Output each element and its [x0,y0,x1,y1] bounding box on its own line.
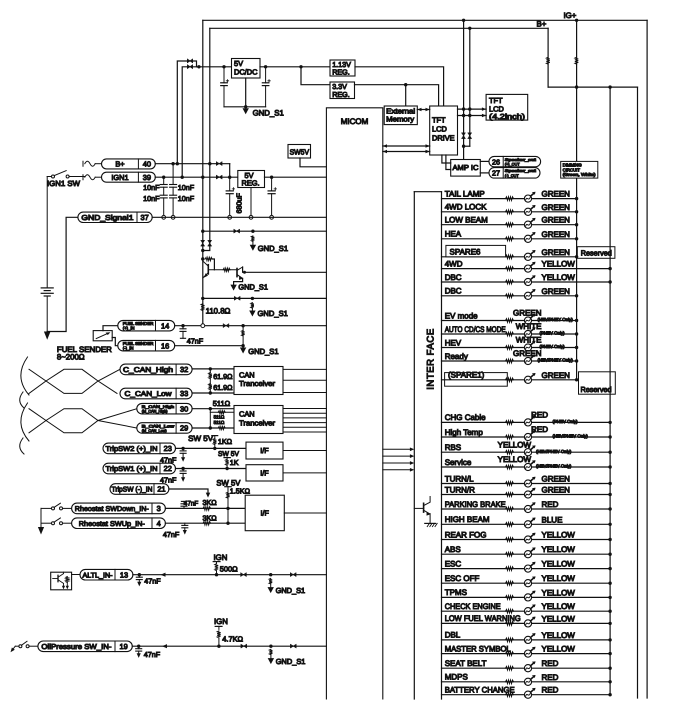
capacitor 10nF pair column 2 [172,164,174,185]
svg-text:B_CAN_High: B_CAN_High [142,405,174,409]
wire: battery to switch [47,176,51,178]
svg-text:TURN/L: TURN/L [445,474,474,483]
capacitor C-in at DC/DC [222,65,225,68]
svg-text:GND_S1: GND_S1 [258,244,288,253]
node TURN/R bus [608,493,611,496]
resistor 110.8 ohm [201,304,204,311]
wire: Q1 base to Q2 [208,269,237,271]
pin 14 FUEL SENDER (+)_IN [118,320,175,331]
resistor 4WD LOCK [506,210,514,214]
bus: CAN2 to MICOM [283,408,326,410]
svg-text:10nF: 10nF [178,183,195,192]
node row A pulldown [251,230,254,233]
svg-text:680uF: 680uF [235,193,244,214]
resistor bead between 14/16 [242,326,244,331]
resistor 1K ohm pullup [214,436,216,439]
node REAR FOG bus [608,538,611,541]
lamp EV mode [524,314,535,324]
resistor 500 ohm [216,562,218,564]
node: bus1 on rail [575,85,578,88]
ic I/F 1 [246,442,283,459]
svg-text:61.9Ω: 61.9Ω [213,372,233,381]
wire: AMP out 26 [480,160,489,162]
svg-text:14: 14 [161,321,169,330]
svg-text:LCD: LCD [432,124,447,133]
node cap 47nF fuel [181,324,184,327]
indicator row SEAT BELT [442,667,611,669]
svg-text:YELLOW: YELLOW [542,602,576,611]
coil on B+ pin [82,161,84,166]
lamp SPARE6 [524,250,535,260]
svg-text:4WD LOCK: 4WD LOCK [445,203,487,212]
svg-text:DC/DC: DC/DC [234,68,258,77]
svg-text:RED: RED [531,411,548,420]
svg-text:(HEV/PHEV Only): (HEV/PHEV Only) [553,434,589,439]
svg-text:YELLOW: YELLOW [542,645,576,654]
wire: row 21 down arrow [169,489,208,494]
svg-text:TripSW2 (+)_IN: TripSW2 (+)_IN [106,445,158,453]
svg-text:(-)_OUT: (-)_OUT [505,174,520,178]
svg-text:GND_S1: GND_S1 [276,657,306,666]
svg-text:10nF: 10nF [143,183,160,192]
resistor Ready [506,359,514,363]
svg-text:I/F: I/F [260,468,269,477]
wire: row B to MICOM [201,297,204,300]
lamp REAR FOG [524,533,535,543]
svg-text:Reserved: Reserved [581,248,612,257]
ferrite bead row13 b [290,573,296,577]
svg-text:Rheostat SWDown_IN-: Rheostat SWDown_IN- [75,505,150,513]
direction arrow row13 [161,573,166,577]
wire: 3.3V drop to External Memory [405,85,407,106]
resistor SPARE6 [506,255,514,259]
node cap row13 [138,573,141,576]
svg-text:23: 23 [164,444,172,453]
svg-text:B_CAN_Low: B_CAN_Low [142,424,175,428]
node TAIL LAMP bus [575,197,578,200]
node DBC bus [575,294,578,297]
wire: 1.13V output to TFT LCD DRIVE [355,67,444,106]
svg-text:PARKING BRAKE: PARKING BRAKE [445,500,506,509]
svg-text:GREEN: GREEN [542,475,571,484]
wire: branch down to 3.3V REG [301,67,330,85]
wire: DC/DC gnd pin [245,78,247,107]
svg-text:GREEN: GREEN [542,486,571,495]
capacitor 47nF row13 [138,575,140,578]
svg-text:HEA: HEA [445,230,462,239]
svg-text:30: 30 [180,404,188,413]
svg-text:I/F: I/F [261,509,270,518]
indicator row RBS [442,451,611,453]
wire: GND_Signal1 to chassis [47,217,78,331]
pin 32 C_CAN_High [120,364,192,375]
node Ready bus [575,359,578,362]
box SPARE6 [446,245,506,256]
lamp Ready [524,354,535,364]
wire: DRIVE to AMP 1 [442,155,451,163]
svg-text:Memory: Memory [386,115,414,124]
resistor pulldown row19 [269,649,272,655]
svg-text:47nF: 47nF [160,476,177,485]
oil pressure switch [12,646,15,650]
ground hatch lamp driver [425,522,436,524]
node SPARE6 bus [575,255,578,258]
capacitor 47nF fuel [182,326,184,329]
resistor High Temp [506,435,514,439]
wire: switch to coil [69,176,85,178]
indicator row BATTERY CHANGE [442,694,611,696]
svg-text:21: 21 [157,485,165,494]
pin 39 IGN1 [102,172,156,182]
resistor TAIL LAMP [506,197,514,201]
lamp DBC [524,275,535,285]
svg-text:LOW FUEL WARNING: LOW FUEL WARNING [445,614,521,623]
indicator row SPARE6 [442,256,577,258]
wire: B+ top rail [210,27,548,29]
twisted pair C_CAN [29,369,120,393]
indicator row High Temp [442,436,611,438]
svg-text:1KΩ: 1KΩ [218,437,233,446]
lamp LOW FUEL WARNING [524,617,535,627]
resistor ESC [506,567,514,571]
indicator row PARKING BRAKE [442,508,611,510]
svg-text:29: 29 [180,424,188,433]
node MASTER SYMBOL bus [608,652,611,655]
indicator row LOW BEAM [442,224,577,226]
wire: switch to pin4 [63,522,72,524]
node (SPARE1) bus [575,378,578,381]
pin 26 Speaker_out (+)_OUT [489,156,541,166]
capacitor 47nF row19 [138,646,140,649]
lamp High Temp [524,430,535,440]
box Reserved (SPARE1) [579,372,616,394]
bus: MICOM to interface 4 lines [383,448,410,450]
resistor TPMS [506,596,514,600]
svg-text:Reserved: Reserved [581,385,612,394]
indicator row 4WD [442,268,611,270]
indicator row REAR FOG [442,539,611,541]
lamp 4WD LOCK [524,205,535,215]
svg-text:40: 40 [143,160,151,169]
lamp (SPARE1) [524,373,535,383]
svg-text:WHITE: WHITE [516,336,542,345]
ferrite bead row19 b [290,644,296,648]
lamp DBC [524,289,535,299]
ferrite bead row13 a [241,573,247,577]
pin 22 TripSW1 (+)_IN [103,463,176,474]
lamp BATTERY CHANGE [524,688,535,698]
svg-text:511Ω: 511Ω [214,415,225,420]
capacitor C-out at DC/DC [264,65,267,68]
wire: B+ row bend down to 5V REG node [229,164,231,178]
resistor base loop [205,257,212,260]
svg-text:(+)_OUT: (+)_OUT [505,163,521,167]
svg-text:DBC: DBC [445,287,462,296]
indicator row HEV [442,347,577,349]
ground GND_S1 row19 [268,658,274,664]
svg-text:13: 13 [120,570,128,579]
capacitor 47nF row4 below [184,523,186,525]
wire: B+ branch up to DC/DC [177,61,196,164]
wire: row 22 to I/F [176,468,247,470]
indicator row TPMS [442,596,611,598]
svg-text:B+: B+ [537,20,547,29]
svg-text:YELLOW: YELLOW [542,631,576,640]
wire: rail right drop [637,87,639,698]
wire: right frame vertical from IG+ corner [646,20,648,698]
svg-text:MASTER SYMBOL: MASTER SYMBOL [445,644,512,653]
svg-text:10nF: 10nF [178,194,195,203]
resistor TURN/R [506,493,514,497]
svg-text:RED: RED [542,500,559,509]
pin 16 FUEL SENDER (-)_IN [118,340,175,351]
resistor pulldown row A [251,236,254,242]
svg-text:GND_S1: GND_S1 [276,586,306,595]
svg-text:3KΩ: 3KΩ [203,498,218,507]
node HIGH BEAM bus [608,523,611,526]
svg-text:GND_Signal1: GND_Signal1 [81,213,133,222]
ic SW5V [288,145,311,159]
indicator row HEA [442,238,577,240]
resistor LOW BEAM [506,223,514,227]
svg-text:MICOM: MICOM [341,117,369,126]
junction rail end on row 14 [201,324,205,328]
resistor 1K pullup 2 [226,458,228,460]
svg-text:DBC: DBC [445,273,462,282]
svg-text:GND_S1: GND_S1 [238,282,268,291]
node LOW BEAM bus [575,223,578,226]
wire: merged rail down to fuel row [202,177,204,326]
node: IG+ / bus1 junction [575,19,578,22]
svg-text:B+: B+ [115,160,124,169]
resistor pulldown row B [251,303,254,309]
lamp TPMS [524,591,535,601]
ic I/F 3 [245,495,284,531]
resistor HEA [506,237,514,241]
node Service bus [608,465,611,468]
ferrite bead row 14 [223,324,229,328]
svg-text:37: 37 [140,213,148,222]
capacitor 47nF row3 above [183,506,185,508]
module TFT LCD (4.2inch) [486,94,528,120]
pin 29 B_CAN_Low [137,423,192,434]
indicator row DBC [442,281,611,283]
dimming circuit box [561,161,598,178]
svg-text:CAN: CAN [239,370,255,379]
wire: Q2 emitter to ground [234,278,243,284]
node ABS bus [608,553,611,556]
svg-text:ALTL_IN-: ALTL_IN- [83,572,114,579]
resistor DBL [506,638,514,642]
svg-text:22: 22 [164,464,172,473]
svg-text:TripSW1 (+)_IN: TripSW1 (+)_IN [106,465,158,473]
svg-text:500Ω: 500Ω [220,564,238,573]
indicator row Ready [442,360,577,362]
svg-text:27: 27 [492,169,500,178]
wire: bus1 vertical (IG+ dimming bus) [576,20,578,380]
svg-text:REG.: REG. [332,67,350,76]
wire: DC/DC ground bar [224,106,266,108]
svg-text:110.8Ω: 110.8Ω [206,307,231,316]
interface top link [414,191,441,193]
lamp AUTO CD/CS MODE [524,327,535,337]
capacitor 680uF [229,177,231,191]
svg-text:DRIVE: DRIVE [432,133,455,142]
node MDPS bus [608,680,611,683]
svg-text:YELLOW: YELLOW [498,455,532,464]
fuel sender unit [93,331,112,341]
resistor 511 ohm vertical [209,409,211,428]
svg-text:LOW BEAM: LOW BEAM [445,216,488,225]
indicator row ESC [442,568,611,570]
svg-text:TAIL LAMP: TAIL LAMP [445,189,485,198]
svg-text:HIGH BEAM: HIGH BEAM [445,515,490,524]
wire: TFT signal 1 to LCD [458,108,487,110]
wire: I/F1 to MICOM [283,450,326,452]
svg-text:8~200Ω: 8~200Ω [57,353,85,362]
bus: CAN1 to MICOM [283,368,326,370]
svg-text:Speaker_out: Speaker_out [505,158,537,162]
wire: SW5V to MICOM [300,158,326,167]
resistor SEAT BELT [506,666,514,670]
resistor MDPS [506,680,514,684]
wire: IG+ top rail [203,19,647,21]
lamp LOW BEAM [524,218,535,228]
ferrite bead row B [234,297,240,301]
cable sheath arc CAN2 [21,403,29,441]
svg-text:WHITE: WHITE [516,322,542,331]
wire: row 32 [192,368,234,370]
svg-text:47nF: 47nF [144,650,161,659]
ic TFT LCD DRIVE [430,106,458,155]
wire: B+ drop right to lamp rail [547,28,549,87]
wire: DC/DC output [260,66,330,68]
svg-text:16: 16 [161,341,169,350]
indicator row 4WD LOCK [442,211,577,213]
lamp MASTER SYMBOL [524,647,535,657]
resistor Service [506,465,514,469]
resistor pulldown row13 [269,578,272,584]
resistor 1.5K ohm [227,487,229,493]
indicator row LOW FUEL WARNING [442,622,611,624]
svg-text:511Ω: 511Ω [214,420,225,425]
node pulldown row19 [269,645,272,648]
node row14 to gnd branch [241,324,244,327]
wire: row A (micom aux) from rail [201,230,204,233]
svg-text:DBL: DBL [445,631,461,640]
indicator row DBL [442,639,611,641]
node: IG+ to LCD drop [462,19,465,22]
node HEV bus [575,346,578,349]
node: base resistor tap [201,257,204,260]
ground GND_S1 Q2 [230,285,236,291]
lamp MDPS [524,675,535,685]
svg-text:YELLOW: YELLOW [498,440,532,449]
ferrite bead on IGN1 row [216,175,222,179]
transistor lamp driver [414,507,423,509]
indicator row CHG Cable [442,421,611,423]
node DBC bus [608,280,611,283]
ferrite bead row19 a [241,644,247,648]
svg-text:ABS: ABS [445,545,461,554]
node: output split [299,65,302,68]
svg-text:YELLOW: YELLOW [542,531,576,540]
resistor 3K ohm row4 [203,522,211,525]
svg-text:OilPressure SW_IN-: OilPressure SW_IN- [41,642,112,651]
indicator row MDPS [442,681,611,683]
node cap row19 [137,645,140,648]
svg-text:(HEV/PHEY Only): (HEV/PHEY Only) [538,358,574,363]
ground GND_S1 row A [250,245,256,251]
svg-text:RED: RED [542,686,559,695]
svg-text:TFT: TFT [432,115,446,124]
svg-text:Rheostat SWUp_IN-: Rheostat SWUp_IN- [79,520,146,528]
svg-text:4.7KΩ: 4.7KΩ [222,635,243,644]
direction arrow row19 [162,644,167,648]
ic AMP IC [451,160,481,177]
svg-text:RED: RED [542,673,559,682]
regulator 5V DC/DC [232,59,261,79]
svg-text:CHECK ENGINE: CHECK ENGINE [445,602,501,611]
svg-text:Service: Service [445,458,472,467]
series resistor on row 29 [218,427,225,430]
indicator row ESC OFF [442,582,611,584]
svg-text:(PHEV Only): (PHEV Only) [540,331,566,336]
svg-text:GREEN: GREEN [542,230,571,239]
svg-text:GREEN: GREEN [542,190,571,199]
interface left vertical [413,192,415,699]
resistor DBC [506,294,514,298]
wire: row 30 [192,408,234,410]
ferrite bead row A [234,229,240,233]
svg-text:19: 19 [120,642,128,651]
wire: fuel row 16 [175,345,243,347]
svg-text:SW5V: SW5V [290,148,310,157]
svg-text:RED: RED [542,659,559,668]
svg-text:REG.: REG. [242,179,260,188]
svg-text:SEAT BELT: SEAT BELT [445,659,487,668]
indicator row Service [442,466,611,468]
svg-text:YELLOW: YELLOW [542,545,576,554]
lamp TURN/R [524,488,535,498]
svg-text:(HEV/PHEV Only): (HEV/PHEV Only) [536,464,572,469]
wire: 3.3V output [355,85,439,106]
svg-text:INTER FACE: INTER FACE [426,328,437,390]
svg-text:3KΩ: 3KΩ [203,514,218,523]
svg-text:(Green, White): (Green, White) [563,172,597,177]
lamp ESC [524,562,535,572]
lamp HEA [524,232,535,242]
wire: row 3 to I/F3 [165,507,245,509]
resistor on bus1 drop [575,57,578,64]
lamp 4WD [524,262,535,272]
wire: IGN1 branch up to DC/DC [182,67,231,177]
svg-text:Tranceiver: Tranceiver [239,418,276,427]
ic CAN Tranceiver 1 [234,367,283,395]
battery [46,177,48,288]
svg-text:SW 5V: SW 5V [188,434,214,443]
node LOW FUEL WARNING bus [608,622,611,625]
wire: signal ground row [152,216,326,218]
svg-text:IGN: IGN [214,617,228,626]
switch rheostat down [52,507,55,510]
svg-text:(M_CAN_High): (M_CAN_High) [142,410,168,414]
ic CAN Tranceiver 2 [234,406,283,434]
wire: row 23 to I/F [176,447,247,449]
lamp CHG Cable [524,416,535,426]
box Reserved SPARE6 [577,247,615,259]
transistor Q2 [236,269,238,277]
